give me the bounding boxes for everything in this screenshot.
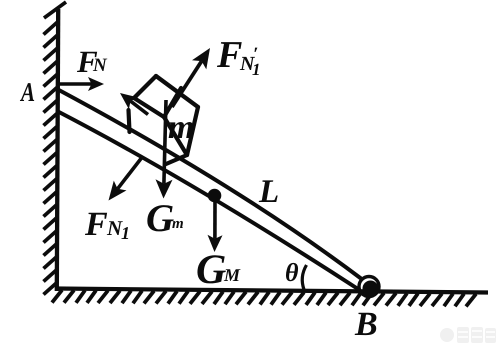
wall: [57, 9, 58, 291]
svg-text:B: B: [354, 306, 378, 343]
svg-text:θ: θ: [285, 258, 299, 287]
plank rounded end at B: [359, 277, 379, 297]
svg-text:G: G: [146, 197, 174, 240]
pivot dot B: [363, 281, 379, 297]
block m outline: [129, 76, 199, 164]
angle arc theta at B: [302, 265, 306, 290]
plank top edge (A to B): [57, 89, 363, 280]
svg-text:m: m: [172, 216, 184, 232]
ground: [55, 289, 488, 293]
plank bottom edge: [57, 111, 358, 289]
svg-text:M: M: [223, 265, 241, 285]
svg-text:F: F: [216, 34, 242, 76]
G_m arrow (weight of block): [156, 100, 173, 199]
svg-text:F: F: [84, 206, 108, 243]
svg-text:G: G: [196, 247, 226, 293]
friction arrow on block (up the incline): [120, 93, 148, 115]
ground hatching: [52, 290, 476, 306]
svg-text:N: N: [92, 55, 108, 76]
G_M arrow (weight of plank): [208, 201, 223, 252]
dot on plank (center of gravity of plank): [208, 189, 222, 203]
F_N'1 arrow (normal force on block, up-right): [172, 48, 210, 107]
wall hatching: [44, 2, 67, 295]
svg-text:1: 1: [121, 223, 130, 243]
svg-text:A: A: [19, 77, 35, 107]
F_N arrow at A (wall normal force): [58, 77, 104, 91]
svg-text:1: 1: [252, 60, 261, 79]
svg-text:L: L: [258, 174, 279, 210]
F_N1 arrow (force of block on plank, down-left): [109, 156, 144, 201]
svg-text:m: m: [168, 109, 194, 146]
watermark bottom right: [440, 327, 496, 343]
